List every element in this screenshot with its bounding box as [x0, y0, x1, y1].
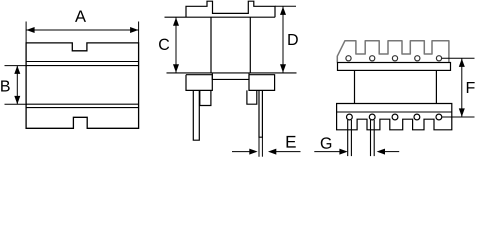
pin 2 left edge: [370, 120, 372, 156]
dimension F arrowhead top: [459, 59, 465, 67]
dimension E right arrow line: [276, 151, 301, 153]
bottom hole circle 1: [347, 114, 353, 120]
dimension G left arrowhead: [339, 149, 347, 155]
interior line upper 2: [26, 65, 139, 67]
dimension D line: [282, 6, 284, 73]
dimension C arrowhead bottom: [173, 64, 179, 72]
top hole circle 1: [346, 56, 351, 61]
top hole circle 4: [415, 56, 420, 61]
winding column right edge: [249, 17, 251, 73]
label E: [287, 136, 296, 148]
side column left edge: [354, 70, 356, 103]
top flange bar: [338, 63, 451, 71]
dimension C line: [175, 17, 177, 73]
middle flange left block: [186, 75, 212, 91]
right leg stub: [247, 90, 257, 104]
dimension A line: [26, 29, 139, 31]
left pin: [193, 90, 199, 140]
dimension A extension line left: [25, 22, 27, 43]
dimension A arrowhead right: [130, 27, 138, 33]
dimension B extension line bottom: [5, 103, 28, 105]
bottom hole circle 2: [369, 114, 375, 120]
dimension E right arrowhead: [268, 149, 276, 155]
right pin: [259, 90, 262, 137]
bottom hole circle 5: [436, 114, 442, 120]
castellated top flange (gray): [337, 41, 449, 63]
dimension F line: [461, 58, 463, 117]
label G: [321, 137, 331, 148]
dimension G left arrow line: [314, 151, 345, 153]
top hole circle 3: [392, 56, 397, 61]
dimension G right arrow line: [385, 151, 399, 153]
dimension C arrowhead top: [173, 18, 179, 26]
dimension D arrowhead bottom: [280, 64, 286, 72]
C and D bottom extension line / middle flange rim: [167, 72, 297, 74]
dimension B arrowhead top: [14, 66, 20, 74]
dimension A arrowhead left: [26, 27, 34, 33]
middle flange center bar: [212, 73, 249, 80]
dimension D extension line top: [275, 5, 296, 7]
dimension B line: [16, 66, 18, 105]
bottom flange interior line: [337, 111, 452, 113]
right pin right extension line: [261, 137, 263, 157]
bottom flange outline with pin slots: [337, 104, 452, 130]
pin 2 right edge: [373, 120, 375, 156]
dimension E left arrow line: [232, 151, 255, 153]
middle flange right block: [249, 75, 275, 91]
dimension A extension line right: [138, 22, 140, 43]
top flange outline with tabs and recess: [186, 1, 275, 17]
dimension B arrowhead bottom: [14, 96, 20, 104]
label A: [75, 11, 86, 22]
interior line lower 2: [26, 103, 139, 105]
bottom hole circle 3: [392, 114, 398, 120]
dimension E left arrowhead: [249, 149, 257, 155]
bobbin top-view outline with notches: [26, 43, 139, 128]
dimension B extension line top: [5, 65, 28, 67]
label D: [288, 34, 297, 45]
bottom hole circle 4: [414, 114, 420, 120]
label B: [1, 80, 10, 91]
left leg stub: [200, 90, 211, 105]
interior line upper 1: [26, 61, 139, 63]
top flange bottom edge + C top extension line: [165, 16, 276, 18]
top hole circle 5: [436, 56, 441, 61]
top hole circle 2: [370, 56, 375, 61]
dimension F extension line bottom: [442, 116, 475, 118]
right pin left extension line: [258, 137, 260, 157]
dimension F arrowhead bottom: [459, 108, 465, 116]
pin 1 left edge: [347, 120, 349, 156]
label F: [467, 82, 475, 93]
label C: [159, 39, 169, 50]
side column right edge: [435, 70, 437, 103]
dimension D arrowhead top: [280, 7, 286, 15]
dimension F extension line top: [442, 57, 475, 59]
winding column left edge: [210, 17, 212, 73]
interior line lower 3: [26, 107, 139, 109]
pin 1 right edge: [350, 120, 352, 156]
dimension G right arrowhead: [377, 149, 385, 155]
